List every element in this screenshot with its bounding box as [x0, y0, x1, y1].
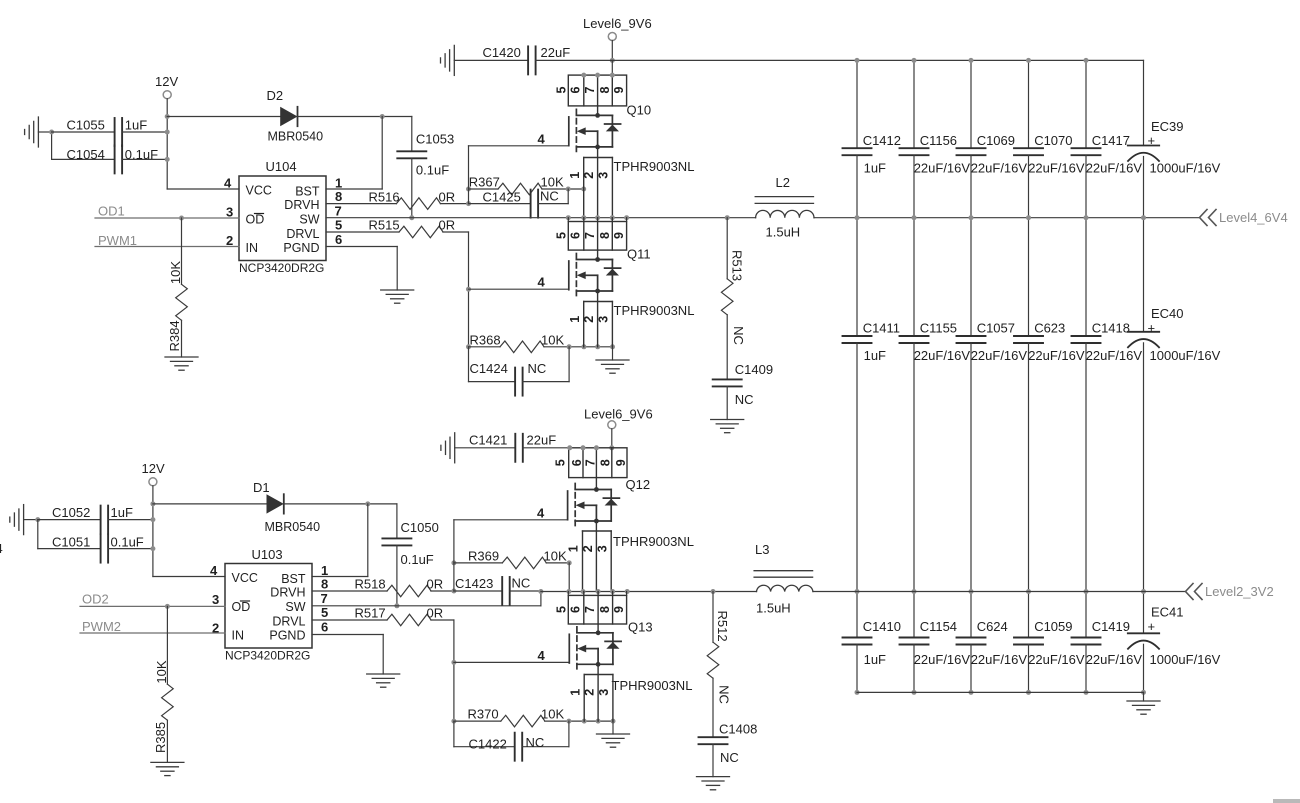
- capacitor C1156 22uF/16V: [900, 60, 971, 217]
- svg-text:C1424: C1424: [470, 361, 508, 376]
- svg-text:R385: R385: [153, 722, 168, 753]
- svg-text:R368: R368: [470, 332, 501, 347]
- svg-text:C1059: C1059: [1034, 619, 1072, 634]
- capacitor C1410 1uF: [843, 592, 902, 693]
- svg-text:NC: NC: [731, 326, 746, 345]
- ground Q11 source: [596, 347, 629, 373]
- svg-text:DRVH: DRVH: [270, 586, 305, 600]
- svg-text:C1417: C1417: [1092, 133, 1130, 148]
- svg-text:9: 9: [612, 86, 626, 93]
- svg-text:22uF/16V: 22uF/16V: [1086, 348, 1143, 363]
- svg-text:EC40: EC40: [1151, 306, 1184, 321]
- svg-text:C1053: C1053: [416, 132, 454, 147]
- svg-text:0.1uF: 0.1uF: [416, 163, 449, 178]
- svg-text:10K: 10K: [544, 549, 567, 564]
- power terminal Level6_9V6 (bottom): [584, 407, 653, 451]
- ground R385: [151, 762, 184, 775]
- svg-text:8: 8: [321, 577, 328, 592]
- svg-text:1000uF/16V: 1000uF/16V: [1150, 652, 1221, 667]
- svg-text:8: 8: [598, 232, 612, 239]
- svg-text:PGND: PGND: [283, 241, 319, 255]
- wire rail Level6_9V6 top: [536, 59, 1144, 61]
- svg-text:10K: 10K: [154, 660, 169, 683]
- capacitor C1420 22uF: [454, 45, 570, 74]
- svg-text:R515: R515: [369, 218, 400, 233]
- svg-text:PWM2: PWM2: [82, 619, 121, 634]
- wire ground rail (bottom of cap bank): [857, 692, 1144, 701]
- capacitor C624 22uF/16V: [957, 592, 1028, 693]
- transistor Q10 source pin box 1-3: [568, 147, 613, 218]
- svg-text:R367: R367: [469, 175, 500, 190]
- svg-text:2: 2: [581, 545, 595, 552]
- node PWM1: [95, 233, 239, 248]
- svg-text:NC: NC: [528, 361, 547, 376]
- svg-text:NCP3420DR2G: NCP3420DR2G: [239, 261, 324, 275]
- svg-text:IN: IN: [232, 629, 245, 643]
- ground cap bank: [1127, 701, 1160, 714]
- wire gate Q13 pin 4: [454, 648, 569, 663]
- svg-text:C1057: C1057: [977, 321, 1015, 336]
- ground R384: [165, 357, 198, 370]
- resistor R517 0R: [312, 606, 454, 626]
- svg-text:5: 5: [555, 232, 569, 239]
- capacitor EC40 1000uF/16V polarized: [1128, 218, 1221, 592]
- svg-text:C1408: C1408: [719, 722, 757, 737]
- svg-text:22uF/16V: 22uF/16V: [1028, 652, 1085, 667]
- svg-text:6: 6: [568, 86, 582, 93]
- svg-text:C1411: C1411: [863, 321, 900, 336]
- svg-text:+: +: [1148, 321, 1156, 336]
- svg-text:1.5uH: 1.5uH: [756, 601, 791, 616]
- svg-text:R370: R370: [468, 707, 499, 722]
- svg-text:22uF/16V: 22uF/16V: [1086, 161, 1143, 176]
- svg-text:8: 8: [598, 606, 612, 613]
- svg-text:C1055: C1055: [67, 118, 105, 133]
- ground (signal, left of C1055/C1054): [25, 117, 52, 147]
- node BST/D2 junction: [380, 114, 385, 119]
- svg-text:3: 3: [597, 316, 611, 323]
- svg-text:7: 7: [583, 86, 597, 93]
- svg-text:7: 7: [583, 232, 597, 239]
- svg-text:22uF: 22uF: [527, 433, 557, 448]
- transistor Q12 TPHR9003NL: [568, 477, 694, 549]
- svg-text:9: 9: [614, 459, 628, 466]
- svg-text:0R: 0R: [439, 189, 456, 204]
- node OD1: [95, 204, 239, 221]
- svg-text:1: 1: [568, 316, 582, 323]
- svg-text:22uF/16V: 22uF/16V: [914, 652, 971, 667]
- svg-text:1: 1: [567, 545, 581, 552]
- svg-text:PWM1: PWM1: [98, 233, 137, 248]
- svg-text:1000uF/16V: 1000uF/16V: [1150, 161, 1221, 176]
- svg-text:3: 3: [596, 545, 610, 552]
- svg-text:Q12: Q12: [626, 477, 651, 492]
- ground (signal, left of C1052/C1051): [10, 505, 38, 535]
- node cap bank rail junctions: [855, 58, 1147, 695]
- svg-text:22uF/16V: 22uF/16V: [914, 161, 971, 176]
- svg-text:U104: U104: [266, 159, 297, 174]
- svg-text:TPHR9003NL: TPHR9003NL: [614, 303, 695, 318]
- svg-text:R513: R513: [730, 250, 745, 281]
- svg-text:BST: BST: [295, 185, 320, 199]
- svg-text:8: 8: [598, 86, 612, 93]
- svg-text:BST: BST: [281, 572, 306, 586]
- ground Q13 source: [597, 721, 630, 747]
- svg-text:EC39: EC39: [1151, 119, 1184, 134]
- wire SW U103: [312, 589, 543, 606]
- wire VCC feed U104: [167, 188, 239, 190]
- node junction C1055 left: [49, 130, 54, 135]
- wire SW rail (Level2_3V2): [541, 591, 1185, 593]
- svg-text:NC: NC: [720, 750, 739, 765]
- svg-text:4: 4: [538, 132, 546, 147]
- svg-text:C1050: C1050: [401, 520, 439, 535]
- ground C1408: [697, 777, 730, 790]
- wire BST riser: [326, 117, 382, 190]
- node gate Q10 (R516 output): [466, 146, 471, 206]
- diode D1 MBR0540: [153, 480, 397, 534]
- svg-text:1uF: 1uF: [125, 118, 147, 133]
- capacitor C1411 1uF: [843, 218, 901, 592]
- svg-text:4: 4: [538, 648, 546, 663]
- svg-text:22uF: 22uF: [541, 45, 571, 60]
- svg-text:C1418: C1418: [1092, 321, 1130, 336]
- transistor Q12 drain pin box 5-9: [554, 445, 629, 477]
- resistor R516 0R: [326, 189, 469, 209]
- svg-text:7: 7: [583, 606, 597, 613]
- capacitor C1421 22uF: [455, 433, 569, 462]
- svg-text:10K: 10K: [541, 175, 564, 190]
- capacitor EC41 1000uF/16V polarized: [1128, 592, 1221, 693]
- resistor R515 0R: [326, 218, 469, 238]
- node Level4_6V4 output port: [1200, 210, 1288, 226]
- svg-text:OD2: OD2: [82, 592, 109, 607]
- svg-text:4: 4: [537, 506, 545, 521]
- svg-text:TPHR9003NL: TPHR9003NL: [614, 159, 695, 174]
- svg-text:22uF/16V: 22uF/16V: [1028, 161, 1085, 176]
- svg-text:10K: 10K: [168, 261, 183, 284]
- svg-text:5: 5: [321, 605, 328, 620]
- svg-text:EC41: EC41: [1151, 605, 1184, 620]
- svg-text:1uF: 1uF: [864, 348, 886, 363]
- svg-text:0.1uF: 0.1uF: [401, 552, 434, 567]
- capacitor C1154 22uF/16V: [900, 592, 971, 693]
- svg-text:C1069: C1069: [977, 133, 1015, 148]
- capacitor C1051 0.1uF: [38, 534, 153, 562]
- svg-text:D1: D1: [253, 480, 270, 495]
- capacitor C1069 22uF/16V: [957, 60, 1028, 217]
- svg-text:C1421: C1421: [469, 433, 507, 448]
- svg-text:C624: C624: [977, 619, 1008, 634]
- svg-text:R516: R516: [369, 189, 400, 204]
- svg-text:C1156: C1156: [920, 133, 957, 148]
- svg-text:22uF/16V: 22uF/16V: [1086, 652, 1143, 667]
- svg-text:0R: 0R: [427, 577, 444, 592]
- svg-text:DRVH: DRVH: [284, 198, 319, 212]
- svg-text:MBR0540: MBR0540: [265, 520, 321, 534]
- power terminal 12V (top): [155, 74, 178, 189]
- svg-text:22uF/16V: 22uF/16V: [1028, 348, 1085, 363]
- svg-text:+: +: [1148, 133, 1156, 148]
- resistor R518 0R: [312, 577, 454, 597]
- transistor Q13 drain pin box 5-9: [555, 592, 627, 625]
- svg-text:OD: OD: [232, 600, 251, 614]
- svg-text:MBR0540: MBR0540: [268, 130, 324, 144]
- svg-text:22uF/16V: 22uF/16V: [971, 348, 1028, 363]
- svg-text:Level2_3V2: Level2_3V2: [1205, 584, 1274, 599]
- svg-text:3: 3: [226, 205, 233, 220]
- svg-text:U103: U103: [252, 547, 283, 562]
- svg-text:VCC: VCC: [246, 184, 272, 198]
- transistor Q11 drain pin box 5-9: [555, 218, 627, 250]
- capacitor C1057 22uF/16V: [957, 218, 1028, 592]
- svg-text:1: 1: [568, 172, 582, 179]
- svg-text:L3: L3: [755, 542, 769, 557]
- svg-text:3: 3: [212, 592, 219, 607]
- svg-text:1uF: 1uF: [864, 161, 886, 176]
- svg-text:9: 9: [612, 232, 626, 239]
- svg-text:C623: C623: [1034, 321, 1065, 336]
- svg-text:C1054: C1054: [67, 147, 105, 162]
- ground PGND U103: [367, 674, 400, 687]
- svg-text:Level4_6V4: Level4_6V4: [1219, 210, 1288, 225]
- node 3V2 rail junctions: [566, 589, 715, 594]
- op-amp U104 NCP3420DR2G driver IC: [224, 159, 342, 275]
- capacitor C623 22uF/16V: [1014, 218, 1085, 592]
- wire gate Q12 pin 4: [454, 506, 568, 521]
- resistor R370 10K: [451, 707, 615, 727]
- capacitor C1070 22uF/16V: [1014, 60, 1085, 217]
- svg-text:R517: R517: [355, 606, 386, 621]
- resistor R367 10K: [469, 175, 587, 195]
- svg-text:SW: SW: [299, 213, 319, 227]
- decorative corner artifact: [1273, 799, 1300, 803]
- svg-text:PGND: PGND: [269, 629, 305, 643]
- capacitor C1412 1uF: [843, 60, 902, 217]
- capacitor C1052 1uF: [38, 505, 153, 534]
- svg-text:0R: 0R: [439, 218, 456, 233]
- wire gate Q11 pin 4: [469, 275, 569, 290]
- svg-text:4: 4: [0, 541, 3, 556]
- resistor R512 NC: [707, 592, 731, 738]
- svg-text:9: 9: [612, 606, 626, 613]
- capacitor EC39 1000uF/16V polarized: [1128, 60, 1221, 217]
- node C1052 left junction: [35, 517, 40, 549]
- svg-text:OD: OD: [246, 213, 265, 227]
- ground C1409: [711, 420, 744, 433]
- node 12V bottom junctions: [150, 501, 155, 551]
- svg-text:1.5uH: 1.5uH: [766, 225, 801, 240]
- wire gate Q10 pin 4: [469, 132, 569, 147]
- svg-text:5: 5: [335, 218, 342, 233]
- inductor L2 1.5uH: [755, 175, 814, 240]
- svg-text:6: 6: [568, 232, 582, 239]
- svg-text:22uF/16V: 22uF/16V: [971, 161, 1028, 176]
- svg-text:TPHR9003NL: TPHR9003NL: [612, 678, 693, 693]
- resistor R385 10K pulldown: [153, 606, 173, 762]
- svg-text:Q11: Q11: [627, 247, 651, 262]
- svg-text:L2: L2: [776, 175, 790, 190]
- transistor Q10 TPHR9003NL: [569, 103, 695, 175]
- capacitor C1419 22uF/16V: [1072, 592, 1143, 693]
- transistor Q12 source pin box 1-3: [567, 521, 612, 592]
- svg-text:C1425: C1425: [483, 190, 521, 205]
- svg-text:0R: 0R: [427, 606, 444, 621]
- svg-text:5: 5: [555, 606, 569, 613]
- capacitor C1053 0.1uF: [397, 117, 454, 218]
- wire BST riser U103: [312, 504, 368, 577]
- wire C1055/C1054 left bus: [51, 132, 53, 159]
- svg-text:2: 2: [226, 233, 233, 248]
- svg-text:Q10: Q10: [627, 103, 652, 118]
- svg-text:NC: NC: [526, 735, 545, 750]
- svg-text:8: 8: [599, 459, 613, 466]
- svg-text:1uF: 1uF: [864, 652, 886, 667]
- svg-text:C1409: C1409: [735, 362, 773, 377]
- node C1053/SW junction: [409, 215, 414, 220]
- svg-text:0.1uF: 0.1uF: [111, 534, 144, 549]
- svg-text:C1423: C1423: [455, 576, 493, 591]
- node Level2_3V2 output port: [1186, 584, 1274, 600]
- svg-text:C1070: C1070: [1034, 133, 1072, 148]
- capacitor C1425 NC: [469, 189, 569, 218]
- svg-text:12V: 12V: [142, 461, 165, 476]
- svg-text:2: 2: [582, 316, 596, 323]
- svg-text:4: 4: [210, 563, 218, 578]
- svg-text:Q13: Q13: [628, 620, 653, 635]
- svg-text:R512: R512: [715, 610, 730, 641]
- svg-text:7: 7: [335, 204, 342, 219]
- svg-text:Level6_9V6: Level6_9V6: [583, 16, 652, 31]
- node BST/D1 junction: [365, 501, 370, 506]
- svg-text:22uF/16V: 22uF/16V: [971, 652, 1028, 667]
- svg-text:C1051: C1051: [52, 534, 90, 549]
- svg-text:VCC: VCC: [232, 571, 258, 585]
- svg-text:4: 4: [224, 176, 232, 191]
- power terminal Level6_9V6 (top): [583, 16, 652, 63]
- svg-text:DRVL: DRVL: [286, 227, 319, 241]
- svg-text:NCP3420DR2G: NCP3420DR2G: [225, 649, 310, 663]
- transistor Q11 TPHR9003NL: [569, 247, 695, 319]
- svg-text:C1052: C1052: [52, 505, 90, 520]
- ground C1421: [441, 433, 455, 463]
- svg-text:R518: R518: [355, 577, 386, 592]
- node PWM2: [80, 619, 225, 634]
- wire PGND to ground: [326, 247, 397, 291]
- svg-text:7: 7: [583, 459, 597, 466]
- capacitor C1050 0.1uF: [382, 504, 438, 606]
- wire PGND U103 to ground: [312, 635, 383, 675]
- svg-text:SW: SW: [285, 600, 305, 614]
- svg-text:3: 3: [597, 689, 611, 696]
- svg-text:NC: NC: [512, 576, 531, 591]
- transistor Q11 source pin box 1-3: [568, 291, 613, 347]
- svg-text:NC: NC: [717, 685, 732, 704]
- capacitor C1417 22uF/16V: [1072, 60, 1143, 217]
- svg-text:6: 6: [335, 232, 342, 247]
- power terminal 12V (bottom): [142, 461, 165, 577]
- transistor Q13 TPHR9003NL: [569, 620, 692, 694]
- svg-text:6: 6: [570, 459, 584, 466]
- svg-text:R369: R369: [468, 549, 499, 564]
- wire DRVL riser to Q11 gate: [466, 232, 471, 347]
- svg-text:NC: NC: [735, 392, 754, 407]
- capacitor C1155 22uF/16V: [900, 218, 971, 592]
- node SW rail junctions: [566, 215, 730, 220]
- capacitor C1054 0.1uF: [52, 145, 168, 173]
- node gate Q12 (R518 output): [451, 520, 456, 594]
- wire DRVL riser to Q13 gate: [451, 620, 456, 721]
- svg-text:5: 5: [554, 459, 568, 466]
- inductor L3 1.5uH: [754, 542, 813, 616]
- resistor R513 NC: [721, 218, 746, 380]
- svg-text:Level6_9V6: Level6_9V6: [584, 407, 653, 422]
- svg-text:OD1: OD1: [98, 204, 125, 219]
- svg-text:3: 3: [597, 172, 611, 179]
- svg-text:C1410: C1410: [863, 619, 901, 634]
- transistor Q13 source pin box 1-3: [568, 664, 613, 721]
- svg-text:+: +: [1148, 619, 1156, 634]
- svg-text:2: 2: [582, 172, 596, 179]
- svg-text:6: 6: [568, 606, 582, 613]
- resistor R368 10K: [466, 332, 615, 352]
- wire SW rail (Level4_6V4): [326, 217, 1199, 219]
- wire VCC feed U103: [153, 576, 225, 578]
- ground PGND U104: [381, 290, 414, 303]
- svg-text:R384: R384: [167, 320, 182, 351]
- capacitor C1408 NC: [699, 722, 758, 777]
- node OD2: [80, 592, 225, 609]
- svg-text:7: 7: [321, 591, 328, 606]
- capacitor C1409 NC: [713, 362, 773, 420]
- svg-text:22uF/16V: 22uF/16V: [914, 348, 971, 363]
- capacitor C1424 NC: [469, 347, 570, 396]
- svg-text:C1420: C1420: [483, 45, 521, 60]
- svg-text:C1422: C1422: [469, 737, 507, 752]
- svg-text:C1412: C1412: [863, 133, 901, 148]
- capacitor C1059 22uF/16V: [1014, 592, 1085, 693]
- svg-text:NC: NC: [540, 189, 559, 204]
- capacitor C1422 NC: [454, 721, 569, 761]
- capacitor C1423 NC: [454, 576, 541, 606]
- svg-text:DRVL: DRVL: [272, 615, 305, 629]
- svg-text:C1419: C1419: [1092, 619, 1130, 634]
- transistor Q10 drain pin box 5-9: [555, 60, 627, 106]
- svg-text:6: 6: [321, 620, 328, 635]
- ground C1420: [441, 45, 455, 75]
- svg-text:0.1uF: 0.1uF: [125, 147, 158, 162]
- svg-text:12V: 12V: [155, 74, 178, 89]
- svg-text:2: 2: [583, 689, 597, 696]
- svg-text:4: 4: [538, 275, 546, 290]
- svg-text:10K: 10K: [541, 332, 564, 347]
- svg-text:1000uF/16V: 1000uF/16V: [1150, 348, 1221, 363]
- op-amp U103 NCP3420DR2G driver IC: [210, 547, 328, 663]
- svg-text:1uF: 1uF: [111, 505, 133, 520]
- capacitor C1055 1uF: [52, 118, 168, 147]
- resistor R384 10K pulldown: [167, 218, 187, 357]
- svg-text:C1154: C1154: [920, 619, 957, 634]
- capacitor C1418 22uF/16V: [1072, 218, 1143, 592]
- svg-text:8: 8: [335, 189, 342, 204]
- resistor R369 10K: [454, 549, 572, 592]
- diode D2 MBR0540: [167, 88, 412, 144]
- svg-text:TPHR9003NL: TPHR9003NL: [613, 534, 694, 549]
- node 12V junctions: [165, 114, 170, 162]
- svg-text:D2: D2: [267, 88, 284, 103]
- node C1050/SW junction: [394, 603, 399, 608]
- svg-text:10K: 10K: [541, 707, 564, 722]
